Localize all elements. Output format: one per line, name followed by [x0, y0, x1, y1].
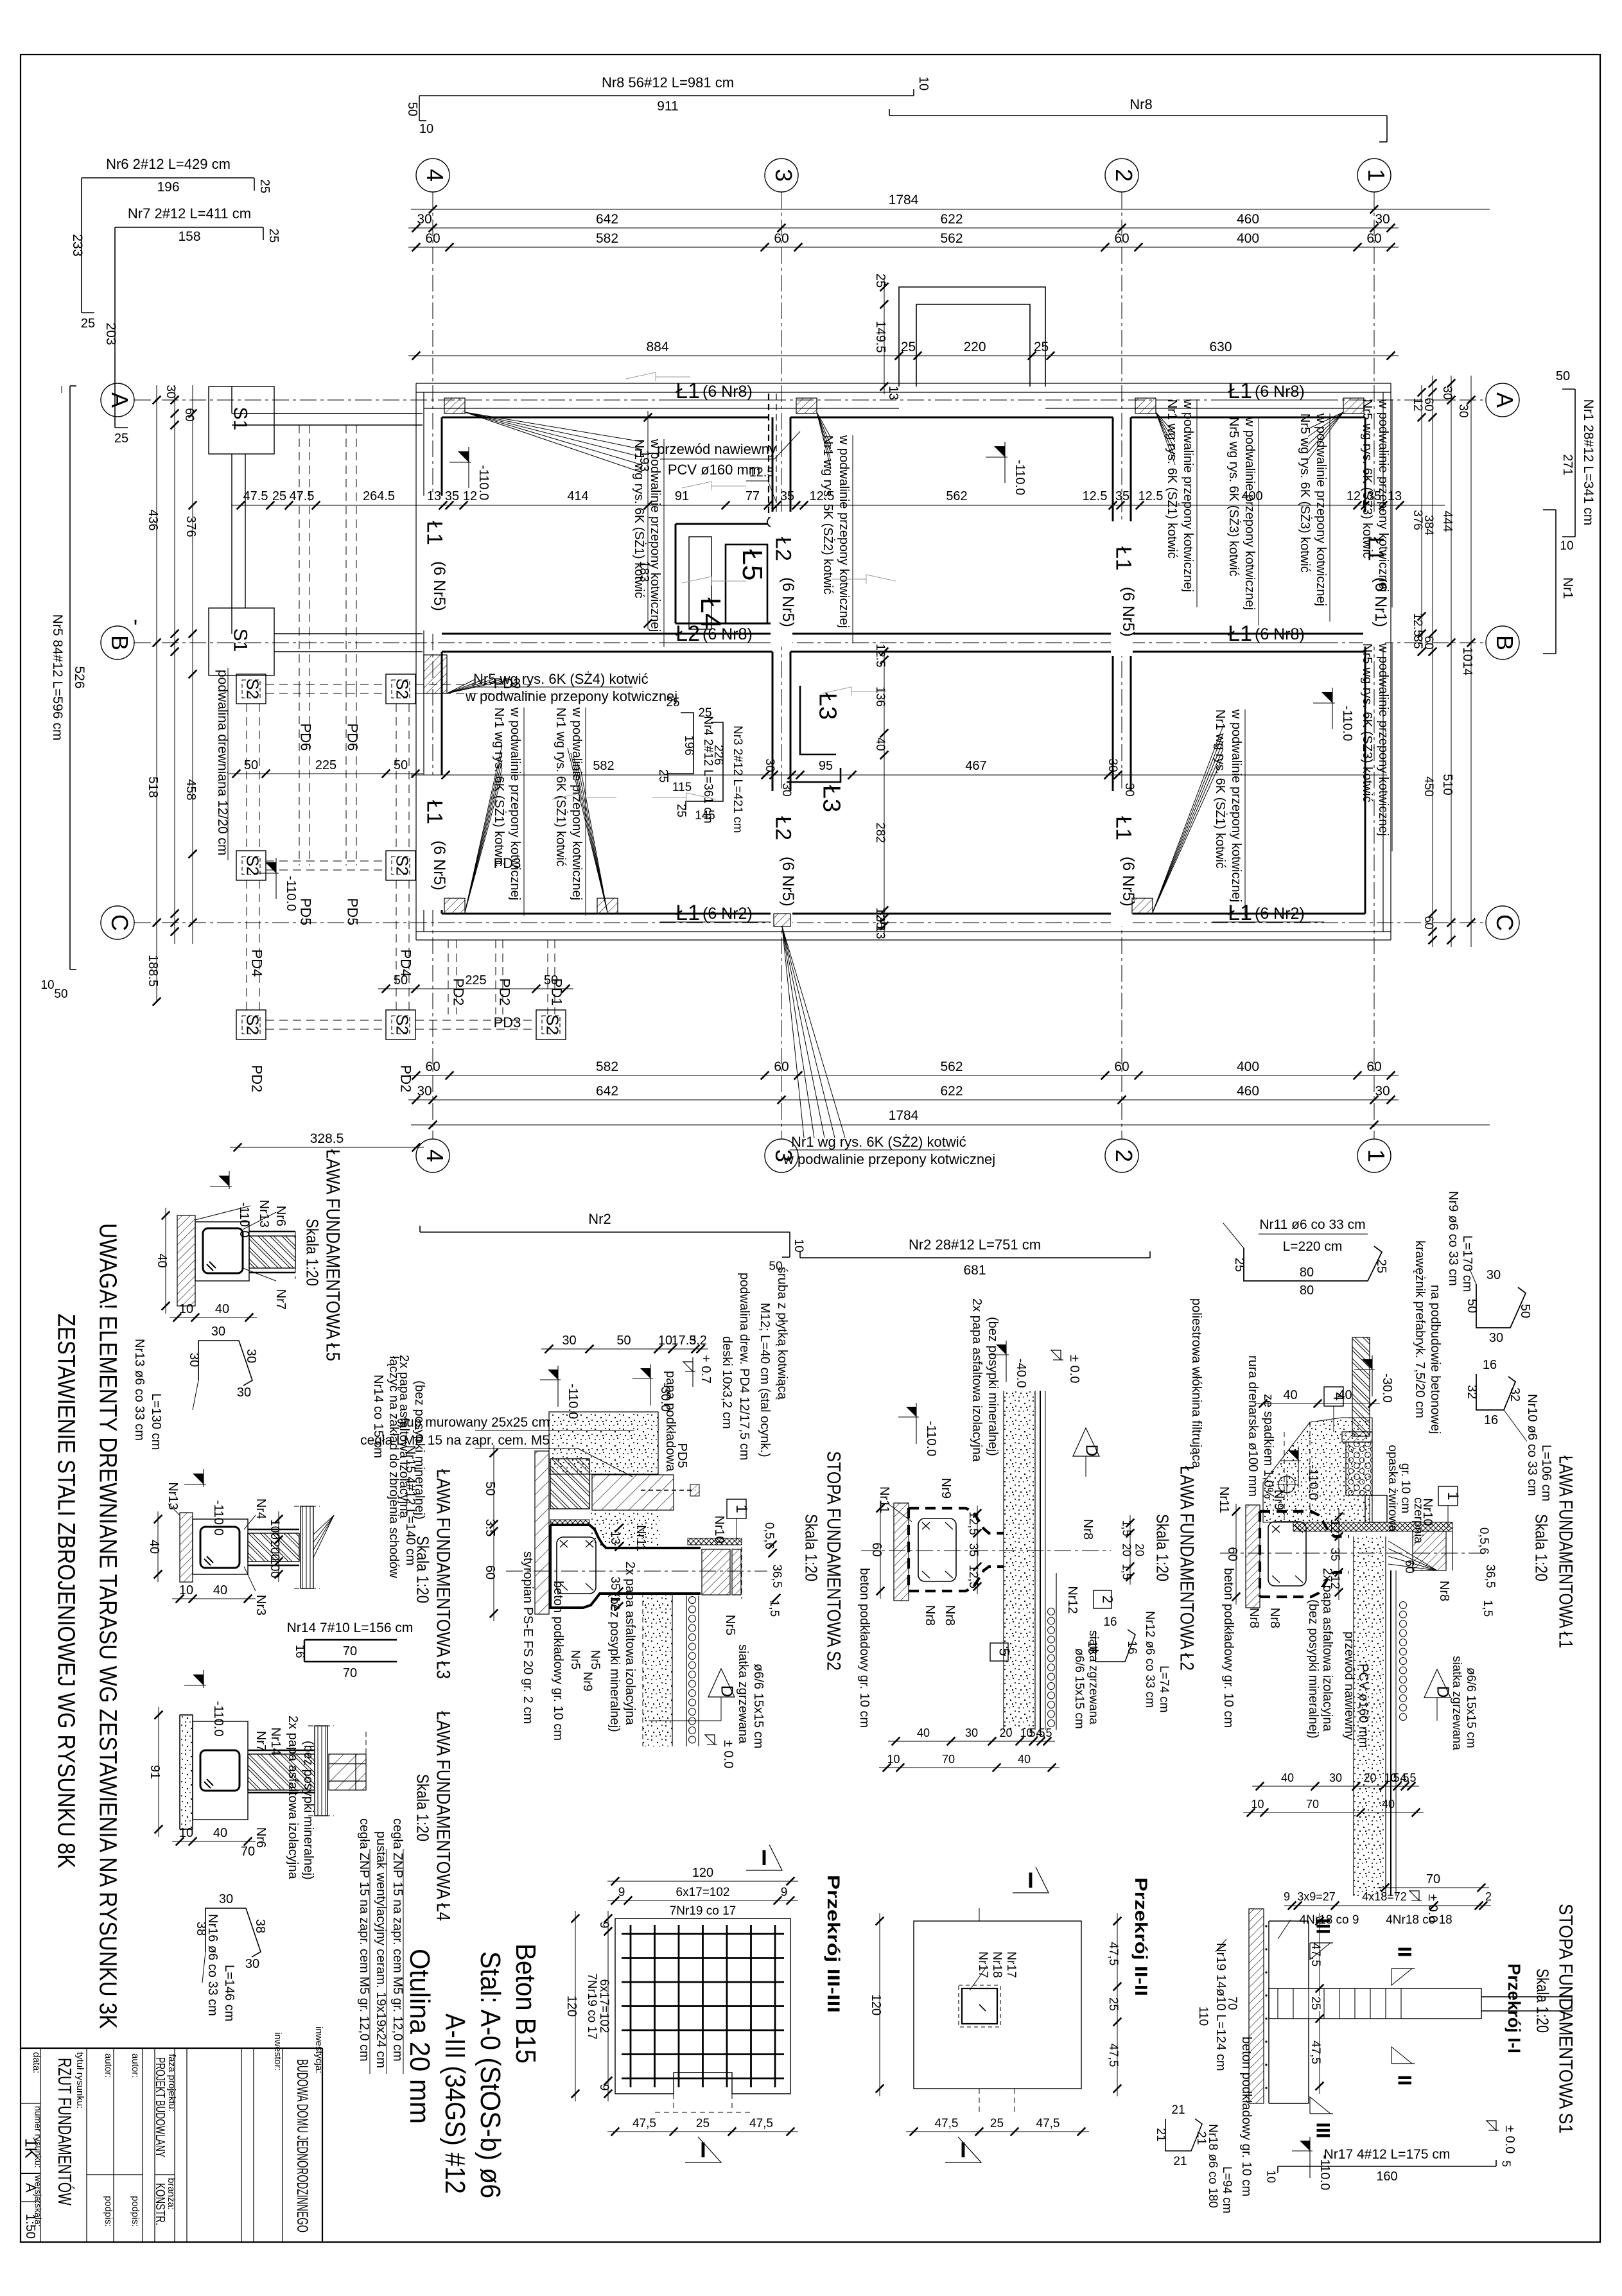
svg-text:Nr13 ø6 co 33 cm: Nr13 ø6 co 33 cm — [132, 1339, 146, 1441]
svg-text:Nr11: Nr11 — [877, 1486, 891, 1513]
svg-text:50: 50 — [483, 1481, 497, 1495]
svg-text:47,5: 47,5 — [749, 2117, 773, 2130]
svg-text:3: 3 — [771, 169, 797, 182]
svg-text:3x9=27: 3x9=27 — [1297, 1890, 1336, 1903]
svg-text:S2: S2 — [393, 855, 412, 876]
svg-text:1,5: 1,5 — [1121, 1563, 1133, 1579]
svg-text:136: 136 — [873, 686, 887, 707]
svg-text:PD6: PD6 — [345, 724, 361, 751]
rebar brackets Nr5-Nr8 margins — [419, 95, 914, 96]
svg-text:10: 10 — [792, 1239, 805, 1252]
svg-text:rura drenarska ø100 mm: rura drenarska ø100 mm — [1246, 1355, 1260, 1497]
svg-text:460: 460 — [1237, 1084, 1259, 1099]
bar shapes Nr9/Nr10/Nr11 — [1244, 1246, 1382, 1281]
svg-text:30: 30 — [562, 1334, 576, 1348]
detail ŁAWA FUNDAMENTOWA Ł3 — [180, 1513, 193, 1582]
svg-text:Przekrój III-III: Przekrój III-III — [824, 1875, 843, 2013]
svg-text:30: 30 — [245, 1957, 259, 1971]
svg-text:Ł1: Ł1 — [423, 521, 447, 545]
svg-text:35: 35 — [608, 1576, 622, 1590]
svg-text:70: 70 — [241, 1845, 255, 1859]
svg-text:120: 120 — [692, 1866, 713, 1880]
svg-text:łączyć na zakład do zbrojenia: łączyć na zakład do zbrojenia schodów — [387, 1356, 401, 1578]
svg-text:25: 25 — [257, 179, 272, 193]
svg-text:642: 642 — [596, 212, 618, 227]
svg-text:PD6: PD6 — [298, 724, 314, 751]
svg-text:160: 160 — [1376, 2170, 1397, 2184]
detail ŁAWA FUNDAMENTOWA Ł2/Ł1 — [1220, 1552, 1483, 1554]
svg-text:-110.0: -110.0 — [1340, 706, 1354, 741]
svg-text:C: C — [107, 914, 133, 931]
svg-text:510: 510 — [1440, 774, 1454, 795]
svg-text:w podwalinie przepony kotwiczn: w podwalinie przepony kotwicznej — [570, 707, 584, 900]
svg-text:2x papa asfaltowa izolacyjna: 2x papa asfaltowa izolacyjna — [286, 1716, 300, 1879]
svg-text:582: 582 — [596, 1059, 618, 1074]
svg-text:Nr16 ø6 co 33 cm: Nr16 ø6 co 33 cm — [205, 1914, 220, 2016]
svg-text:91: 91 — [675, 489, 689, 503]
svg-text:Ł3: Ł3 — [818, 785, 845, 812]
svg-text:12.5: 12.5 — [1083, 489, 1108, 503]
svg-text:30: 30 — [1122, 783, 1136, 796]
svg-text:30: 30 — [1329, 1771, 1342, 1784]
svg-text:Skala 1:20: Skala 1:20 — [1532, 1514, 1551, 1581]
svg-text:Nr1 wg rys. 6K (SŻ1) kotwić: Nr1 wg rys. 6K (SŻ1) kotwić — [492, 708, 507, 867]
svg-text:444: 444 — [1440, 510, 1454, 532]
svg-text:30: 30 — [1489, 1331, 1503, 1345]
svg-text:60: 60 — [774, 231, 789, 246]
svg-text:70: 70 — [343, 1666, 357, 1680]
svg-text:I: I — [700, 2138, 706, 2162]
svg-text:203: 203 — [103, 322, 118, 345]
svg-text:10: 10 — [179, 1826, 193, 1840]
svg-text:poliestrowa włóknina filtrując: poliestrowa włóknina filtrująca — [1189, 1298, 1203, 1468]
svg-text:PCV ø160 mm: PCV ø160 mm — [1356, 1664, 1370, 1748]
svg-text:Nr2: Nr2 — [588, 1211, 611, 1227]
svg-text:Ł1: Ł1 — [423, 800, 447, 824]
svg-text:1: 1 — [1363, 1149, 1390, 1162]
svg-text:12.5: 12.5 — [1411, 613, 1424, 637]
svg-text:I: I — [960, 2138, 966, 2162]
svg-text:S2: S2 — [543, 1014, 562, 1035]
svg-text:60: 60 — [869, 1542, 884, 1556]
svg-text:2x papa asfaltowa izolacyjna: 2x papa asfaltowa izolacyjna — [623, 1561, 637, 1725]
bar shape Nr13 — [198, 1341, 252, 1386]
svg-text:50: 50 — [1518, 1304, 1532, 1318]
svg-text:Nr3 2#12 L=421 cm: Nr3 2#12 L=421 cm — [731, 726, 744, 833]
svg-text:Nr9: Nr9 — [580, 1672, 594, 1692]
svg-text:KONSTR.: KONSTR. — [153, 2183, 167, 2225]
svg-text:M12; L=40 cm (stal ocynk.): M12; L=40 cm (stal ocynk.) — [758, 1303, 772, 1457]
svg-text:BUDOWA DOMU JEDNORODZINNEGO: BUDOWA DOMU JEDNORODZINNEGO — [293, 2059, 311, 2232]
svg-text:Nr9: Nr9 — [939, 1478, 953, 1499]
grid axes 1-4 / A-C with circles — [432, 192, 433, 1139]
svg-text:13: 13 — [608, 1531, 622, 1544]
svg-text:10: 10 — [1265, 2170, 1278, 2183]
svg-text:na podbudowie betonowej: na podbudowie betonowej — [1428, 1285, 1442, 1434]
svg-text:Nr7 2#12 L=411 cm: Nr7 2#12 L=411 cm — [128, 205, 251, 222]
svg-text:(6 Nr8): (6 Nr8) — [702, 625, 753, 643]
svg-text:Nr5: Nr5 — [723, 1615, 737, 1635]
svg-text:Otulina 20 mm: Otulina 20 mm — [404, 1949, 435, 2124]
svg-text:PD2: PD2 — [451, 978, 467, 1006]
svg-text:PD2: PD2 — [497, 978, 513, 1006]
svg-text:PD3: PD3 — [494, 675, 521, 691]
svg-text:pustak wentylacyjny ceram. 19x: pustak wentylacyjny ceram. 19x19x24 cm — [374, 1831, 388, 2068]
svg-text:Nr8: Nr8 — [1129, 96, 1152, 112]
svg-text:21: 21 — [1173, 2155, 1187, 2168]
svg-text:642: 642 — [596, 1084, 618, 1099]
svg-text:gr. 10 cm: gr. 10 cm — [1399, 1463, 1412, 1513]
svg-text:L=106 cm: L=106 cm — [1539, 1445, 1553, 1501]
svg-text:47,5: 47,5 — [1036, 2117, 1060, 2130]
svg-text:884: 884 — [646, 340, 668, 354]
svg-text:60: 60 — [1366, 231, 1381, 246]
svg-text:450: 450 — [1422, 776, 1435, 797]
svg-text:271: 271 — [1560, 454, 1574, 475]
detail STOPA FUNDAMENTOWA S2 — [861, 1550, 1111, 1551]
svg-text:słup murowany 25x25 cm: słup murowany 25x25 cm — [397, 1415, 550, 1430]
svg-text:30: 30 — [244, 1349, 258, 1363]
svg-text:60: 60 — [1366, 1059, 1381, 1074]
svg-text:400: 400 — [1237, 1059, 1259, 1074]
svg-text:-110.0: -110.0 — [476, 465, 491, 500]
svg-text:PD5: PD5 — [675, 1443, 689, 1468]
svg-text:-110.0: -110.0 — [237, 1202, 251, 1237]
svg-text:25: 25 — [873, 274, 887, 288]
svg-text:Nr8: Nr8 — [1437, 1581, 1451, 1601]
svg-text:Ł3: Ł3 — [814, 693, 841, 720]
svg-text:30: 30 — [417, 1084, 432, 1099]
svg-text:35: 35 — [966, 1543, 980, 1556]
svg-text:Nr4: Nr4 — [254, 1499, 268, 1519]
svg-text:32: 32 — [1508, 1387, 1522, 1402]
svg-text:7Nr19 co 17: 7Nr19 co 17 — [585, 1973, 598, 2040]
chimney foundation bump — [899, 287, 1045, 387]
svg-text:220: 220 — [963, 340, 986, 354]
svg-text:30: 30 — [211, 1325, 225, 1339]
svg-text:32: 32 — [1465, 1385, 1479, 1399]
svg-text:50: 50 — [244, 758, 258, 772]
svg-text:681: 681 — [963, 1263, 986, 1278]
svg-text:526: 526 — [72, 666, 87, 688]
svg-text:384: 384 — [1422, 515, 1435, 535]
svg-text:ø6/6 15x15 cm: ø6/6 15x15 cm — [751, 1664, 765, 1748]
svg-text:16: 16 — [1483, 1358, 1497, 1372]
svg-text:Nr2 28#12 L=751 cm: Nr2 28#12 L=751 cm — [909, 1237, 1041, 1253]
svg-text:w podwalinie przepony kotwiczn: w podwalinie przepony kotwicznej — [1229, 709, 1243, 902]
svg-text:I: I — [761, 1846, 767, 1870]
svg-text:1,5: 1,5 — [1481, 1600, 1494, 1617]
svg-text:± 0.0: ± 0.0 — [1503, 2125, 1517, 2153]
svg-text:deski 10x3,2 cm: deski 10x3,2 cm — [720, 1336, 734, 1429]
svg-text:L=94 cm: L=94 cm — [1220, 2166, 1234, 2213]
svg-text:10: 10 — [1560, 539, 1573, 553]
svg-text:12.5: 12.5 — [873, 644, 887, 668]
svg-text:III: III — [1312, 2122, 1334, 2138]
svg-text:śruba z płytką kotwiącą: śruba z płytką kotwiącą — [775, 1267, 789, 1400]
svg-text:70: 70 — [343, 1644, 357, 1658]
svg-text:9: 9 — [597, 1922, 611, 1929]
svg-text:S1: S1 — [230, 407, 251, 431]
svg-text:25: 25 — [1374, 1259, 1388, 1273]
svg-text:Nr10 ø6 co 33 cm: Nr10 ø6 co 33 cm — [1525, 1394, 1539, 1496]
svg-text:4x18=72: 4x18=72 — [1362, 1890, 1407, 1903]
svg-text:Nr5 wg rys. 6K (SŻ3) kotwić: Nr5 wg rys. 6K (SŻ3) kotwić — [1226, 417, 1241, 577]
svg-text:Przekrój II-II: Przekrój II-II — [1131, 1877, 1151, 1996]
svg-text:10: 10 — [1251, 1798, 1264, 1811]
svg-text:numer rysunku:: numer rysunku: — [33, 2106, 44, 2168]
svg-text:12.5: 12.5 — [749, 465, 774, 480]
svg-text:Nr5: Nr5 — [588, 1650, 602, 1670]
svg-text:233: 233 — [70, 234, 85, 256]
svg-text:-110.0: -110.0 — [1306, 1465, 1320, 1500]
svg-text:II: II — [1394, 2075, 1415, 2086]
svg-text:10: 10 — [179, 1583, 193, 1597]
svg-text:30: 30 — [763, 758, 776, 772]
svg-text:Ł1: Ł1 — [1112, 546, 1136, 571]
svg-text:w podwalinie przepony kotwiczn: w podwalinie przepony kotwicznej — [1376, 643, 1390, 836]
svg-text:0,5,6: 0,5,6 — [1477, 1527, 1490, 1554]
svg-text:Nr11 ø6 co 33 cm: Nr11 ø6 co 33 cm — [1259, 1217, 1365, 1232]
svg-text:B: B — [107, 635, 133, 650]
svg-text:Nr1: Nr1 — [1560, 577, 1575, 599]
svg-text:4,5: 4,5 — [1036, 1726, 1052, 1739]
svg-text:35: 35 — [1115, 489, 1129, 503]
svg-text:25: 25 — [1106, 1997, 1120, 2011]
svg-text:Ł1: Ł1 — [1228, 622, 1252, 646]
svg-text:Ł2: Ł2 — [771, 816, 796, 840]
svg-text:414: 414 — [567, 489, 588, 503]
svg-text:D: D — [1434, 1686, 1453, 1698]
svg-text:Nr10: Nr10 — [712, 1515, 726, 1543]
svg-text:10: 10 — [887, 1753, 900, 1766]
svg-text:-110.0: -110.0 — [284, 876, 298, 911]
svg-text:9: 9 — [597, 2084, 611, 2091]
svg-text:RZUT FUNDAMENTÓW: RZUT FUNDAMENTÓW — [54, 2058, 75, 2205]
svg-text:przewód nawiewny: przewód nawiewny — [657, 441, 776, 457]
detail ŁAWA FUNDAMENTOWA Ł4 — [180, 1715, 193, 1829]
svg-text:60: 60 — [774, 1059, 789, 1074]
svg-text:5: 5 — [1500, 2161, 1513, 2167]
svg-text:Nr5 wg rys. 6K (SŻ3) kotwić: Nr5 wg rys. 6K (SŻ3) kotwić — [1360, 643, 1375, 803]
svg-text:PD4: PD4 — [398, 950, 414, 977]
svg-text:183: 183 — [637, 561, 651, 582]
svg-text:PD2: PD2 — [249, 1065, 265, 1093]
svg-text:D: D — [718, 1685, 737, 1698]
svg-text:25: 25 — [674, 804, 688, 817]
svg-text:40: 40 — [1338, 1388, 1352, 1402]
svg-text:40: 40 — [1281, 1771, 1294, 1784]
svg-text:data:: data: — [31, 2052, 42, 2073]
svg-text:Beton B15: Beton B15 — [510, 1944, 541, 2064]
svg-text:Nr5: Nr5 — [568, 1650, 582, 1670]
svg-text:25: 25 — [1309, 1996, 1322, 2010]
svg-text:S1: S1 — [230, 629, 251, 652]
svg-text:0,5,6: 0,5,6 — [762, 1522, 776, 1549]
svg-text:20: 20 — [999, 1726, 1012, 1739]
svg-text:30: 30 — [1487, 1268, 1501, 1282]
svg-text:25: 25 — [114, 431, 128, 446]
svg-text:30: 30 — [780, 783, 793, 796]
svg-text:L=170 cm: L=170 cm — [1460, 1235, 1474, 1292]
svg-text:622: 622 — [940, 1084, 963, 1099]
svg-text:Ł1: Ł1 — [1112, 816, 1136, 840]
svg-text:25: 25 — [1232, 1258, 1246, 1272]
svg-text:12,5: 12,5 — [966, 1511, 980, 1535]
svg-text:ŁAWA FUNDAMENTOWA Ł2: ŁAWA FUNDAMENTOWA Ł2 — [1176, 1466, 1198, 1671]
svg-text:Nr1 28#12 L=341 cm: Nr1 28#12 L=341 cm — [1581, 399, 1596, 526]
svg-text:(6 Nr5): (6 Nr5) — [779, 577, 797, 627]
svg-text:80: 80 — [1300, 1265, 1314, 1280]
svg-text:47,5: 47,5 — [935, 2117, 959, 2130]
svg-text:40: 40 — [215, 1302, 229, 1316]
svg-text:10: 10 — [658, 1334, 672, 1348]
svg-text:w podwalinie przepony kotwiczn: w podwalinie przepony kotwicznej — [783, 1151, 995, 1167]
svg-text:225: 225 — [315, 758, 336, 772]
svg-text:cegła ZNP 15 na zapr. cem M5 g: cegła ZNP 15 na zapr. cem M5 gr. 12,0 cm — [390, 1818, 405, 2062]
svg-text:77: 77 — [746, 489, 760, 503]
svg-text:L=130 cm: L=130 cm — [149, 1393, 163, 1450]
svg-text:25: 25 — [272, 489, 286, 503]
svg-text:siatka zgrzewana: siatka zgrzewana — [736, 1644, 750, 1744]
svg-text:1K: 1K — [22, 2138, 41, 2159]
svg-text:PD5: PD5 — [298, 898, 314, 926]
svg-text:(6 Nr5): (6 Nr5) — [1119, 587, 1137, 637]
svg-text:S2: S2 — [243, 679, 263, 699]
svg-text:Skala 1:20: Skala 1:20 — [1533, 1969, 1553, 2033]
svg-text:60: 60 — [182, 408, 196, 421]
svg-text:30: 30 — [1375, 212, 1390, 227]
svg-text:Nr7: Nr7 — [274, 1289, 288, 1310]
svg-text:ø6/6 15x15 cm: ø6/6 15x15 cm — [1072, 1648, 1086, 1729]
svg-text:± 0.0: ± 0.0 — [721, 1740, 735, 1768]
svg-text:35: 35 — [445, 489, 459, 503]
svg-text:B: B — [1492, 635, 1518, 650]
svg-text:Nr18: Nr18 — [990, 1951, 1004, 1978]
svg-text:7Nr19 co 17: 7Nr19 co 17 — [670, 1904, 737, 1918]
svg-text:+ 0.7: + 0.7 — [699, 1355, 713, 1384]
svg-text:1: 1 — [1363, 169, 1390, 182]
svg-text:70: 70 — [942, 1753, 955, 1766]
svg-text:50: 50 — [616, 1334, 631, 1348]
svg-text:40: 40 — [917, 1726, 930, 1739]
svg-text:Ł1: Ł1 — [1228, 379, 1252, 403]
svg-text:70: 70 — [1225, 1996, 1239, 2010]
svg-text:40: 40 — [1018, 1753, 1031, 1766]
svg-text:25: 25 — [81, 317, 95, 331]
svg-text:Nr11: Nr11 — [1217, 1486, 1231, 1513]
svg-text:50: 50 — [544, 973, 558, 987]
svg-text:40: 40 — [1283, 1388, 1297, 1402]
svg-text:Nr17: Nr17 — [1004, 1951, 1018, 1978]
svg-text:Przekrój I-I: Przekrój I-I — [1504, 1963, 1524, 2053]
svg-text:30: 30 — [164, 385, 177, 398]
svg-text:16: 16 — [1484, 1413, 1498, 1427]
svg-text:Nr12 ø6 co 33 cm: Nr12 ø6 co 33 cm — [1143, 1611, 1156, 1708]
svg-text:PD2: PD2 — [398, 1065, 414, 1093]
svg-text:458: 458 — [184, 779, 198, 800]
svg-text:S2: S2 — [243, 855, 263, 876]
svg-text:13: 13 — [873, 925, 887, 939]
svg-text:Nr8: Nr8 — [1081, 1519, 1095, 1540]
svg-text:9: 9 — [1284, 1890, 1290, 1903]
svg-text:110: 110 — [1196, 2006, 1210, 2026]
svg-text:1,5: 1,5 — [1121, 1520, 1133, 1536]
svg-text:beton podkładowy gr. 10 cm: beton podkładowy gr. 10 cm — [551, 1581, 565, 1741]
svg-text:60: 60 — [1422, 636, 1435, 649]
svg-text:Ł2: Ł2 — [771, 537, 796, 561]
svg-text:70: 70 — [1306, 1798, 1319, 1811]
svg-text:w podwalinie przepony kotwiczn: w podwalinie przepony kotwicznej — [1314, 413, 1328, 606]
svg-text:13: 13 — [427, 489, 441, 503]
svg-text:1: 1 — [733, 1504, 750, 1513]
svg-text:I: I — [1027, 1868, 1033, 1893]
svg-text:tytuł rysunku:: tytuł rysunku: — [74, 2052, 85, 2109]
svg-text:beton podkładowy gr. 10 cm: beton podkładowy gr. 10 cm — [857, 1568, 871, 1728]
svg-text:25: 25 — [698, 706, 711, 720]
svg-text:Nr6: Nr6 — [274, 1206, 288, 1226]
svg-text:Nr4 2#12 L=361 cm: Nr4 2#12 L=361 cm — [701, 716, 715, 823]
bar shape Nr14 — [304, 1639, 397, 1640]
svg-text:-30.0: -30.0 — [1380, 1373, 1394, 1403]
svg-text:188.5: 188.5 — [146, 955, 160, 987]
svg-text:47.5: 47.5 — [290, 489, 315, 503]
svg-text:Nr12: Nr12 — [1065, 1586, 1079, 1613]
svg-text:STOPA FUNDAMENTOWA S1: STOPA FUNDAMENTOWA S1 — [1555, 1904, 1576, 2134]
detail ŁAWA FUNDAMENTOWA Ł5 — [177, 1215, 195, 1306]
svg-text:35: 35 — [780, 489, 794, 503]
svg-text:Skala 1:20: Skala 1:20 — [802, 1514, 821, 1581]
svg-text:40: 40 — [213, 1826, 227, 1840]
svg-text:Nr1 wg rys. 6K (SŻ1) kotwić: Nr1 wg rys. 6K (SŻ1) kotwić — [1213, 709, 1228, 869]
svg-text:35: 35 — [1328, 1547, 1341, 1561]
svg-text:(bez posypki mineralnej): (bez posypki mineralnej) — [986, 1317, 1000, 1456]
svg-text:47,5: 47,5 — [1106, 1942, 1120, 1966]
terrace structure S1/S2 posts — [209, 387, 274, 454]
svg-text:2x papa asfaltowa izolacyjna: 2x papa asfaltowa izolacyjna — [1320, 1568, 1334, 1732]
svg-text:30: 30 — [237, 1386, 251, 1400]
svg-text:Ł1: Ł1 — [676, 379, 700, 403]
svg-text:562: 562 — [946, 489, 967, 503]
svg-text:ŁAWA FUNDAMENTOWA Ł3: ŁAWA FUNDAMENTOWA Ł3 — [433, 1469, 454, 1679]
svg-text:Nr14 7#10 L=156 cm: Nr14 7#10 L=156 cm — [287, 1621, 414, 1635]
svg-text:krawężnik prefabryk. 7,5/20 cm: krawężnik prefabryk. 7,5/20 cm — [1413, 1240, 1427, 1418]
svg-text:Skala 1:20: Skala 1:20 — [303, 1219, 322, 1286]
svg-text:Nr9: Nr9 — [1271, 1490, 1286, 1510]
svg-text:(6 Nr8): (6 Nr8) — [702, 383, 753, 401]
svg-text:460: 460 — [1237, 212, 1259, 227]
svg-text:PCV ø160 mm: PCV ø160 mm — [668, 462, 760, 478]
svg-text:50: 50 — [1556, 369, 1570, 383]
svg-text:autor:: autor: — [130, 2053, 141, 2078]
svg-text:25: 25 — [666, 696, 679, 709]
svg-text:10: 10 — [916, 76, 930, 91]
svg-text:582: 582 — [596, 231, 618, 246]
svg-text:47,5: 47,5 — [632, 2117, 656, 2130]
svg-text:2: 2 — [1111, 169, 1137, 182]
svg-text:120: 120 — [869, 1994, 883, 2015]
svg-text:193: 193 — [637, 450, 651, 471]
svg-text:622: 622 — [940, 212, 963, 227]
svg-text:Nr8 56#12 L=981 cm: Nr8 56#12 L=981 cm — [602, 74, 734, 91]
svg-text:cegła ZNP 15 na zapr. cem M5 g: cegła ZNP 15 na zapr. cem M5 gr. 12,0 cm — [357, 1818, 371, 2062]
svg-text:16: 16 — [293, 1644, 306, 1658]
svg-text:9: 9 — [781, 1886, 788, 1899]
Przekrój II-II — [914, 1921, 1081, 2089]
svg-text:25: 25 — [696, 2117, 710, 2130]
svg-text:120: 120 — [564, 1996, 579, 2017]
svg-text:50: 50 — [394, 758, 408, 772]
